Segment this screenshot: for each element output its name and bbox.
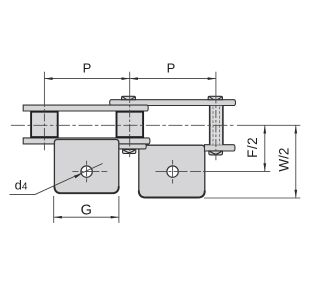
svg-text:P: P — [83, 60, 92, 75]
svg-text:F/2: F/2 — [245, 137, 260, 158]
svg-text:P: P — [167, 60, 176, 75]
svg-text:G: G — [81, 202, 92, 218]
svg-text:W/2: W/2 — [277, 148, 292, 172]
